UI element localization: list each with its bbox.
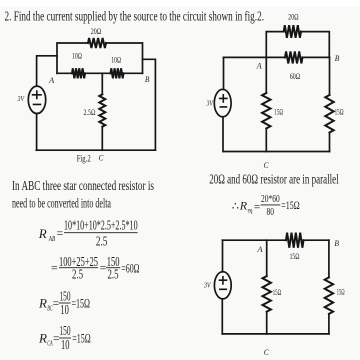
resistor 15Ω (circuit3 middle) xyxy=(263,276,271,312)
wire: fig2 middle row centre segment xyxy=(85,72,111,74)
svg-text:R: R xyxy=(38,226,47,241)
wire: circuit2 node A row right stub to node B xyxy=(303,56,330,58)
wire: circuit3 source top lead xyxy=(222,240,224,272)
wire: circuit2 right branch lower lead xyxy=(329,133,331,152)
svg-text:2.5: 2.5 xyxy=(108,267,119,282)
svg-text:=: = xyxy=(57,228,64,240)
resistor 20Ω (fig2 top) xyxy=(88,38,106,48)
svg-text:15Ω: 15Ω xyxy=(290,252,300,261)
svg-text:=15Ω: =15Ω xyxy=(281,200,299,212)
svg-text:C: C xyxy=(264,348,269,357)
svg-text:20Ω: 20Ω xyxy=(288,13,299,22)
wire: circuit2 source bottom lead xyxy=(222,117,224,152)
wire: circuit2 source top lead xyxy=(223,57,225,89)
svg-text:∴: ∴ xyxy=(232,200,239,212)
svg-text:10Ω: 10Ω xyxy=(72,51,82,60)
svg-text:=: = xyxy=(254,201,260,213)
resistor 2.5Ω (fig2 centre) xyxy=(99,94,105,126)
svg-text:B: B xyxy=(145,75,150,84)
wire: fig2 middle row right stub (node B side) xyxy=(124,72,143,74)
svg-text:A: A xyxy=(256,62,262,71)
svg-text:2. Find the current supplied b: 2. Find the current supplied by the sour… xyxy=(5,9,265,24)
wire: fig2 inner loop top-left vertical + top side xyxy=(57,43,88,73)
wire: circuit3 bottom rail (node C) xyxy=(222,333,329,335)
svg-text:2.5Ω: 2.5Ω xyxy=(84,108,96,117)
wire: fig2 source bottom lead xyxy=(36,113,38,150)
wire: fig2 bottom rail (node C) xyxy=(36,149,155,151)
equation R_eq fraction bar xyxy=(261,204,281,206)
svg-text:10: 10 xyxy=(60,302,69,317)
equation R_BC fraction bar xyxy=(59,302,71,304)
svg-text:C: C xyxy=(264,161,269,170)
equation line2 fraction bar 2 xyxy=(106,267,120,269)
svg-text:R: R xyxy=(38,296,47,311)
svg-text:B: B xyxy=(334,239,339,248)
svg-text:=60Ω: =60Ω xyxy=(121,260,139,275)
wire: circuit3 right branch lower lead xyxy=(328,314,330,334)
voltage source 3V (fig2) xyxy=(28,86,45,113)
wire: circuit2 bottom rail (node C) xyxy=(224,151,330,153)
svg-text:need to be converted into delt: need to be converted into delta xyxy=(12,197,111,212)
resistor 15Ω (circuit3 top) xyxy=(286,233,304,248)
svg-text:AB: AB xyxy=(48,236,55,243)
svg-text:15Ω: 15Ω xyxy=(274,107,283,116)
wire: fig2 source top lead xyxy=(37,56,57,86)
svg-text:10*10+10*2.5+2.5*10: 10*10+10*2.5+2.5*10 xyxy=(64,217,138,232)
voltage source 3V (circuit2) xyxy=(214,89,231,117)
wire: fig2 top side right part + right edge of inner loop xyxy=(106,43,143,73)
svg-text:2.5: 2.5 xyxy=(96,234,108,249)
wire: fig2 centre branch upper lead xyxy=(101,73,103,94)
svg-text:15Ω: 15Ω xyxy=(335,107,344,116)
svg-text:A: A xyxy=(256,245,262,254)
svg-text:B: B xyxy=(335,54,340,63)
wire: circuit3 middle branch lower lead xyxy=(266,312,268,334)
wire: circuit2 top side right part xyxy=(301,32,329,58)
wire: circuit2 right branch upper lead xyxy=(329,57,331,95)
wire: circuit3 right branch upper lead xyxy=(328,240,330,277)
equation R_AB fraction bar xyxy=(64,232,138,234)
svg-text:=: = xyxy=(53,298,60,310)
svg-text:R: R xyxy=(239,199,248,213)
resistor 10Ω (fig2 right) xyxy=(111,68,124,78)
svg-text:Fig.2: Fig.2 xyxy=(77,155,91,165)
wire: circuit3 top rail right part xyxy=(304,239,329,241)
svg-text:=15Ω: =15Ω xyxy=(72,296,91,311)
resistor 60Ω (circuit2) xyxy=(285,51,303,63)
svg-text:60Ω: 60Ω xyxy=(290,72,301,81)
svg-text:R: R xyxy=(38,331,47,346)
equation R_CA fraction bar xyxy=(59,337,71,339)
svg-text:=: = xyxy=(51,260,58,274)
svg-text:20*60: 20*60 xyxy=(261,193,280,205)
wire: fig2 stub from inner loop to outer right edge xyxy=(143,59,156,150)
wire: circuit2 middle branch lower lead xyxy=(265,128,267,151)
svg-text:2.5: 2.5 xyxy=(72,267,83,282)
wire: fig2 centre branch lower lead xyxy=(101,127,103,151)
svg-text:10: 10 xyxy=(61,337,70,352)
wire: circuit2 node A row left lead from source xyxy=(224,56,286,58)
svg-text:20Ω and 60Ω resistor are in pa: 20Ω and 60Ω resistor are in parallel xyxy=(209,173,339,188)
wire: fig2 middle row left stub (node A) xyxy=(57,72,72,74)
svg-text:A: A xyxy=(48,76,54,85)
svg-text:eq: eq xyxy=(248,208,253,215)
equation line2 fraction bar 1 xyxy=(59,267,98,269)
svg-text:=15Ω: =15Ω xyxy=(72,331,91,346)
svg-text:In ABC three star connected re: In ABC three star connected resistor is xyxy=(12,179,154,194)
wire: circuit3 middle branch upper lead xyxy=(266,240,268,276)
resistor 15Ω (circuit2 middle) xyxy=(262,93,270,128)
svg-text:C: C xyxy=(99,153,104,162)
resistor 20Ω (circuit2 top) xyxy=(284,25,301,38)
wire: circuit3 top rail left part xyxy=(223,239,287,241)
svg-text:10Ω: 10Ω xyxy=(111,56,121,65)
svg-text:15Ω: 15Ω xyxy=(273,288,282,297)
resistor 10Ω (fig2 left) xyxy=(72,68,85,78)
voltage source 3V (circuit3) xyxy=(214,272,231,299)
wire: circuit2 top side left part xyxy=(266,32,283,58)
wire: circuit2 middle branch upper lead xyxy=(265,57,267,93)
svg-text:20Ω: 20Ω xyxy=(91,27,102,36)
resistor 15Ω (circuit3 right) xyxy=(325,277,333,314)
svg-text:80: 80 xyxy=(266,206,274,218)
svg-text:15Ω: 15Ω xyxy=(337,288,345,297)
resistor 15Ω (circuit2 right) xyxy=(325,95,333,133)
svg-text:=: = xyxy=(100,260,107,274)
wire: circuit3 source bottom lead xyxy=(221,299,223,334)
